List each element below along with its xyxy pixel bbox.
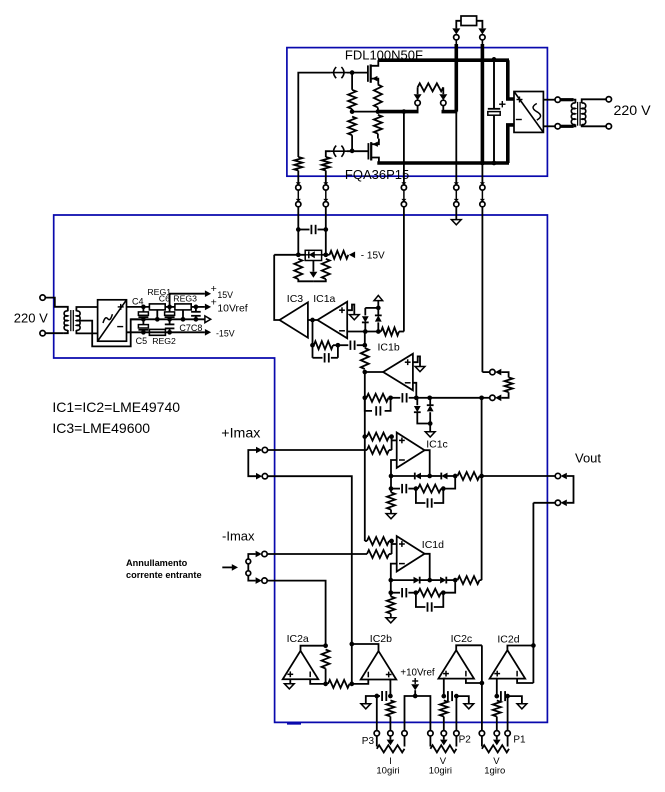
capacitor gate coupling P-MOSFET	[331, 150, 347, 152]
wire center tap detour	[76, 319, 143, 346]
svg-text:P3: P3	[362, 736, 375, 747]
connector circle box exit 3	[401, 182, 406, 185]
switch circle lower	[246, 571, 251, 576]
wire P2 right riser	[455, 696, 457, 731]
wire left coupling line upper	[297, 207, 299, 255]
wire bridge AC top to connector	[543, 99, 555, 101]
wire IC1a out to IC3 in	[308, 319, 318, 321]
potentiometer P1	[481, 736, 483, 747]
wire connector link 5	[481, 190, 483, 199]
diode clamp down	[364, 308, 366, 316]
wire IC3 out feedback	[274, 255, 279, 320]
wire IC1d plus tap	[392, 543, 397, 545]
wire shunt to rail	[482, 397, 490, 399]
svg-text:IC1=IC2=LME49740: IC1=IC2=LME49740	[52, 399, 180, 415]
ground IC1a plus	[349, 315, 359, 320]
junction limiter left	[296, 252, 301, 257]
wire IC2c cap gnd	[456, 696, 468, 704]
wire gate to N-MOSFET	[347, 72, 368, 74]
wire IC1d lower fb row	[390, 580, 392, 593]
wire IC2c out drop	[481, 645, 483, 683]
junction IC2b cap right	[388, 694, 393, 699]
wire IC1d row2 to rail	[443, 580, 455, 593]
resistor IC2a feedback	[322, 650, 330, 669]
resistor divider upper right column	[374, 115, 382, 134]
ground IC2c cap	[464, 704, 474, 709]
op-amp IC1d	[397, 536, 425, 571]
connector arrow shunt bottom	[495, 395, 501, 402]
junction gate resistor mid rail	[350, 109, 355, 114]
connector arrow shunt top	[495, 369, 501, 376]
power stage enclosure box	[287, 48, 548, 177]
wire +Imax upper feed	[268, 449, 367, 451]
potentiometer P1 circles	[479, 731, 484, 736]
connector circle 220V out bottom	[606, 124, 611, 129]
main enclosure box	[54, 215, 548, 722]
resistor IC1d lower input	[367, 550, 389, 558]
wire IC2d out drop	[532, 646, 534, 684]
svg-text:REG2: REG2	[152, 336, 176, 346]
connector arrow snubber left	[414, 94, 422, 100]
wire connector link 1	[297, 190, 299, 199]
junction IC1d row2 c	[414, 590, 419, 595]
junction bulk cap top	[492, 57, 497, 62]
wire fuse left lead	[456, 21, 461, 29]
junction right fuse line on bottom rail	[480, 161, 485, 166]
wire IC2c to P1 drop	[481, 683, 483, 731]
svg-text:IC1d: IC1d	[422, 539, 444, 551]
power arrow +10Vref	[412, 680, 418, 682]
switch circle upper	[246, 559, 251, 564]
capacitor IC1b fb series	[389, 397, 401, 399]
wire connector link 3	[403, 190, 405, 199]
junction source resistor mid rail	[376, 109, 381, 114]
svg-text:C7C8: C7C8	[179, 323, 202, 333]
wire IC1b out	[365, 371, 383, 373]
svg-text:15V: 15V	[217, 290, 233, 300]
power arrow -15V out	[205, 329, 211, 336]
wire plus rail b	[165, 306, 175, 308]
connector circle snubber right	[441, 100, 446, 105]
wire IC2b cap gnd	[366, 696, 377, 704]
junction fb row1 right	[362, 343, 367, 348]
wire IC2a minus step	[310, 679, 325, 684]
potentiometer P3 circles	[374, 731, 379, 736]
diode IC1c d1	[391, 475, 415, 477]
wire IC2d plus drop	[496, 679, 498, 697]
node gate P-MOSFET	[350, 149, 355, 154]
wire right coupling line upper	[325, 207, 327, 255]
svg-text:+: +	[211, 296, 217, 308]
wire fb row1	[333, 344, 348, 346]
connector circle mains top	[40, 295, 45, 300]
wire V1 to IC1d corner	[365, 540, 367, 542]
wire IC2b plus drop	[389, 680, 391, 697]
bridge rectifier B2	[514, 92, 543, 133]
junction IC1d d2 node	[453, 578, 458, 583]
wire plus rail a	[127, 306, 150, 308]
diode IC1b clamp down	[416, 398, 418, 405]
connector circle +Imax lower	[262, 474, 267, 479]
wire thick vertical from left fuse terminal to mid node	[455, 40, 457, 44]
svg-text:FDL100N50F: FDL100N50F	[345, 48, 423, 63]
svg-text:C6: C6	[159, 294, 170, 304]
resistor IC2d wiper	[493, 701, 501, 717]
connector circle main entry 3	[401, 199, 406, 202]
wire mid rail thick left segment	[378, 110, 419, 114]
transformer T2 output	[574, 100, 576, 104]
connector arrow snubber right	[439, 94, 447, 100]
wire thick AC top jumper	[560, 98, 573, 101]
connector circle left fuse terminal	[454, 35, 459, 40]
wire IC1a minus rail	[347, 331, 381, 333]
wire bridge AC bottom to connector	[543, 125, 555, 127]
junction IC1d plus upper	[389, 539, 394, 544]
connector circle AC bottom	[555, 124, 560, 129]
transformer T1 mains	[63, 307, 68, 311]
wire fuse right lead	[477, 21, 483, 29]
connector circle mains bottom	[40, 331, 45, 336]
ground IC2b cap	[361, 704, 371, 709]
svg-text:P2: P2	[459, 734, 472, 745]
capacitor C8	[195, 307, 197, 312]
wire gate to P-MOSFET	[347, 150, 368, 152]
diode IC1c d2	[430, 475, 442, 477]
wire IC1d minus step	[391, 564, 397, 581]
power arrow -15V	[349, 252, 355, 259]
junction IC1b fb mid	[388, 395, 393, 400]
junction fb row1 left	[310, 343, 315, 348]
annotation arrow	[222, 566, 232, 568]
resistor input sense	[381, 328, 399, 336]
junction IC1b rail shunt tap	[479, 395, 484, 400]
resistor gate pulldown N	[351, 73, 353, 90]
wire thick bottom rail	[377, 161, 509, 165]
connector arrow -Imax upper	[256, 551, 262, 558]
resistor IC1b feedback	[367, 394, 389, 402]
resistor IC1c to shunt	[458, 472, 480, 480]
svg-text:C4: C4	[132, 297, 144, 307]
junction IC1b minus node	[414, 395, 419, 400]
connector circle box exit 2	[323, 182, 328, 185]
fuse F1	[461, 16, 477, 26]
junction IC1d out node	[427, 578, 432, 583]
wire +10Vref U	[405, 696, 416, 731]
box bottom edge overlap mark	[287, 723, 301, 725]
wire IC1c row2 to rail	[443, 476, 455, 489]
connector circle 220V out top	[606, 97, 611, 102]
capacitor IC2d input	[497, 695, 499, 697]
wire IC2d out	[507, 646, 533, 651]
wire IC2b out drop	[351, 644, 353, 684]
ground IC1b clamps	[429, 424, 431, 432]
wire mains top	[45, 298, 63, 307]
wire IC2a out	[301, 646, 326, 651]
resistor limiter left leg	[294, 259, 302, 279]
connector circle box exit 4	[454, 182, 459, 185]
svg-text:10giri: 10giri	[429, 766, 452, 777]
capacitor C5	[142, 319, 144, 324]
power arrow limiter down	[309, 272, 317, 278]
wire snubber left lead	[417, 87, 419, 94]
wire output plus line from connector	[481, 207, 483, 372]
resistor IC1a feedback	[314, 341, 333, 349]
resistor IC1d to sense	[458, 576, 480, 584]
junction C6 bottom	[167, 317, 172, 322]
capacitor C bulk electrolytic	[493, 59, 495, 108]
arrow zero volt out	[205, 316, 211, 323]
junction IC1d row2 left	[388, 590, 393, 595]
junction C7 bottom	[167, 330, 172, 335]
connector arrow left fuse terminal	[452, 28, 460, 34]
potentiometer P2 circles	[428, 731, 433, 736]
capacitor IC1a fb series	[349, 341, 351, 350]
svg-text:Annullamento: Annullamento	[126, 558, 188, 568]
svg-text:1giro: 1giro	[484, 766, 505, 777]
wire connector link 2	[325, 190, 327, 199]
connector circle box exit 1	[296, 182, 301, 185]
junction IC1b out node	[362, 370, 367, 375]
wire IC1b rail to diodes	[416, 397, 429, 399]
wire P gate corner from lower connector	[326, 151, 331, 157]
connector arrow Vout minus	[561, 500, 567, 507]
wire left fuse line below rail	[455, 112, 457, 185]
wire IC2d cap gnd	[508, 696, 522, 704]
op-amp IC1b	[383, 354, 413, 391]
junction coupling cap right	[323, 227, 328, 232]
junction IC2c minus join	[480, 681, 485, 686]
resistor NGate lower	[294, 157, 302, 171]
wire IC2a plus stub	[289, 679, 291, 683]
junction +10Vref node	[413, 694, 418, 699]
junction C5 bottom	[141, 330, 146, 335]
junction Vout rail tap	[479, 474, 484, 479]
op-amp IC3	[280, 302, 308, 337]
power arrow +15V out	[205, 290, 211, 297]
wire P1 right riser	[507, 696, 509, 731]
resistor source N sense	[374, 85, 382, 108]
capacitor C6	[169, 307, 171, 312]
junction IC2d cap right	[505, 694, 510, 699]
wire chain V1 lower	[364, 398, 366, 541]
svg-text:-Imax: -Imax	[222, 529, 255, 544]
capacitor IC1a fb shunt	[313, 357, 323, 359]
connector circle right fuse terminal	[480, 35, 485, 40]
capacitor IC1d fb lower	[416, 593, 426, 607]
op-amp IC1a	[317, 302, 347, 339]
wire mid rail thick right segment	[442, 110, 458, 114]
capacitor gate coupling N-MOSFET	[331, 72, 347, 74]
wire P3 left riser	[376, 696, 378, 731]
regulator REG2	[149, 329, 165, 335]
wire connector link 4	[455, 190, 457, 199]
wire IC2d minus step	[517, 679, 533, 683]
capacitor IC2b input	[377, 695, 380, 697]
wire mains bottom	[45, 332, 64, 334]
ground IC1d	[386, 618, 396, 623]
wire Vout minus lead	[533, 502, 555, 504]
capacitor C4	[142, 307, 144, 312]
resistor snubber	[418, 83, 444, 91]
junction IC1c plus upper	[389, 434, 394, 439]
junction IC2c cap right	[454, 694, 459, 699]
wire IC1c out	[425, 450, 430, 476]
svg-text:220 V: 220 V	[614, 103, 652, 119]
limiter box with diode	[305, 250, 321, 260]
resistor to -15V	[330, 251, 349, 259]
junction limiter right	[323, 252, 328, 257]
wire IC2c plus drop	[444, 679, 446, 697]
wire right fuse line below rail	[481, 163, 483, 185]
op-amp IC2a	[283, 651, 319, 680]
junction IC2b minus join	[349, 682, 354, 687]
capacitor across gate lines	[298, 229, 309, 231]
wire -Imax lower feed	[267, 581, 325, 646]
resistor IC2c wiper	[440, 701, 448, 717]
capacitor C7	[169, 319, 171, 324]
resistor IC1b input	[361, 348, 369, 369]
op-amp IC1c	[397, 433, 425, 468]
capacitor IC2c input	[444, 695, 446, 697]
wire IC1d out	[425, 554, 430, 580]
junction clamp join	[428, 421, 433, 426]
diode clamp up	[377, 308, 379, 316]
wire IC1c lower fb row	[390, 476, 392, 489]
wire Vout rail	[482, 475, 556, 477]
svg-text:IC2a: IC2a	[287, 633, 309, 645]
power arrow +10Vref out	[205, 304, 211, 311]
op-amp IC2b	[361, 651, 397, 680]
junction minus rail d1	[363, 329, 368, 334]
junction IC2d out node	[531, 643, 536, 648]
wire IC1b plus step	[413, 356, 420, 366]
junction C8 top	[194, 305, 199, 310]
junction IC2b cap left	[374, 694, 379, 699]
resistor IC1d fb	[418, 589, 441, 597]
transistor Q1 FDL100N50F	[367, 65, 369, 81]
junction C4 bottom	[141, 317, 146, 322]
wire thick bridge minus to bottom rail	[508, 125, 514, 163]
arrow up reference IC1a	[374, 295, 383, 300]
wire mid rail thin segment	[352, 111, 378, 113]
junction IC2b out node	[349, 642, 354, 647]
junction IC1c d2 node	[453, 474, 458, 479]
svg-text:IC1b: IC1b	[378, 342, 400, 354]
connector circle AC top	[555, 97, 560, 102]
wire Vout bracket	[567, 476, 574, 503]
svg-text:corrente entrante: corrente entrante	[126, 570, 202, 580]
connector arrow right fuse terminal	[478, 28, 486, 34]
wire mid-node sense drop	[403, 112, 405, 185]
junction IC2d cap left	[494, 694, 499, 699]
svg-text:10Vref: 10Vref	[217, 303, 247, 314]
junction minus rail d2	[376, 329, 381, 334]
resistor IC2b wiper	[386, 700, 394, 716]
svg-text:+Imax: +Imax	[221, 426, 260, 442]
wire output plus corner	[482, 371, 489, 373]
wire fb row2 left	[312, 345, 314, 358]
junction IC1c row2 c	[414, 486, 419, 491]
connector circle snubber left	[415, 100, 420, 105]
op-amp IC2c	[438, 650, 474, 679]
wire IC2b minus step	[352, 680, 369, 684]
junction IC1a output	[310, 318, 315, 323]
wire -Imax bracket	[248, 554, 255, 581]
ground IC1b plus	[415, 367, 425, 372]
junction C6 top	[167, 305, 172, 310]
ground IC2a plus	[284, 684, 294, 689]
potentiometer P3	[376, 736, 378, 747]
connector arrow +Imax lower	[256, 473, 262, 480]
resistor limiter right leg	[322, 259, 330, 279]
diode IC1d d2	[430, 579, 440, 581]
wire +Imax bracket	[248, 450, 256, 476]
junction IC2c cap left	[441, 694, 446, 699]
svg-text:P1: P1	[513, 734, 526, 745]
wire IC1d plus join	[389, 541, 392, 554]
junction IC1b minus rail left	[362, 395, 367, 400]
junction IC1b rail d2	[427, 395, 432, 400]
ground output arrow	[451, 220, 461, 225]
svg-text:IC1c: IC1c	[426, 438, 448, 450]
wire snubber right circle to mid rail	[442, 106, 444, 112]
connector circle -Imax lower	[262, 578, 267, 583]
resistor IC1c ground leg	[390, 489, 392, 493]
resistor IC1c fb	[418, 485, 441, 493]
bridge rectifier B1	[98, 300, 127, 341]
wire feedback to limiter node	[274, 254, 305, 256]
wire IC1a fb vertical	[312, 320, 314, 345]
wire IC1a plus step	[347, 305, 354, 315]
wire +15V branch	[170, 294, 205, 307]
op-amp IC2d	[490, 650, 526, 679]
resistor IC1c lower input	[367, 446, 389, 454]
svg-text:IC2d: IC2d	[497, 634, 519, 646]
connector arrow +Imax upper	[256, 447, 262, 454]
diode IC1d d1	[391, 579, 414, 581]
regulator REG1	[149, 304, 165, 310]
capacitor IC1c fb	[391, 488, 400, 490]
wire thick top rail	[378, 58, 509, 62]
junction IC1d minus node	[388, 578, 393, 583]
svg-text:FQA36P15: FQA36P15	[345, 167, 409, 182]
wire Vplus sense vertical	[481, 398, 483, 580]
wire snubber left circle to mid rail	[417, 106, 419, 112]
wire +Imax lower feed	[268, 476, 352, 644]
svg-text:IC2c: IC2c	[451, 633, 473, 645]
junction IC1c row2 left	[389, 486, 394, 491]
svg-text:IC3: IC3	[287, 293, 304, 305]
resistor divider upper left column	[348, 117, 356, 136]
junction bulk cap bottom	[492, 161, 497, 166]
junction mid rail sense tap	[402, 109, 407, 114]
connector circle Vout minus	[555, 500, 560, 505]
wire diode pair top rail	[365, 307, 378, 309]
svg-text:+: +	[211, 283, 217, 295]
connector circle +Imax upper	[262, 447, 267, 452]
junction C4 top	[141, 305, 146, 310]
svg-text:REG3: REG3	[173, 294, 197, 304]
resistor IC1d ground leg	[390, 593, 392, 597]
connector circle main entry 5	[480, 199, 485, 202]
connector circle shunt top	[490, 369, 495, 374]
node gate N-MOSFET	[350, 70, 355, 75]
capacitor IC1c fb lower	[416, 489, 426, 503]
capacitor IC1d fb	[391, 592, 400, 594]
junction coupling cap left	[296, 227, 301, 232]
wire -Imax upper feed	[268, 553, 367, 555]
wire thick AC bottom jumper	[560, 125, 573, 128]
